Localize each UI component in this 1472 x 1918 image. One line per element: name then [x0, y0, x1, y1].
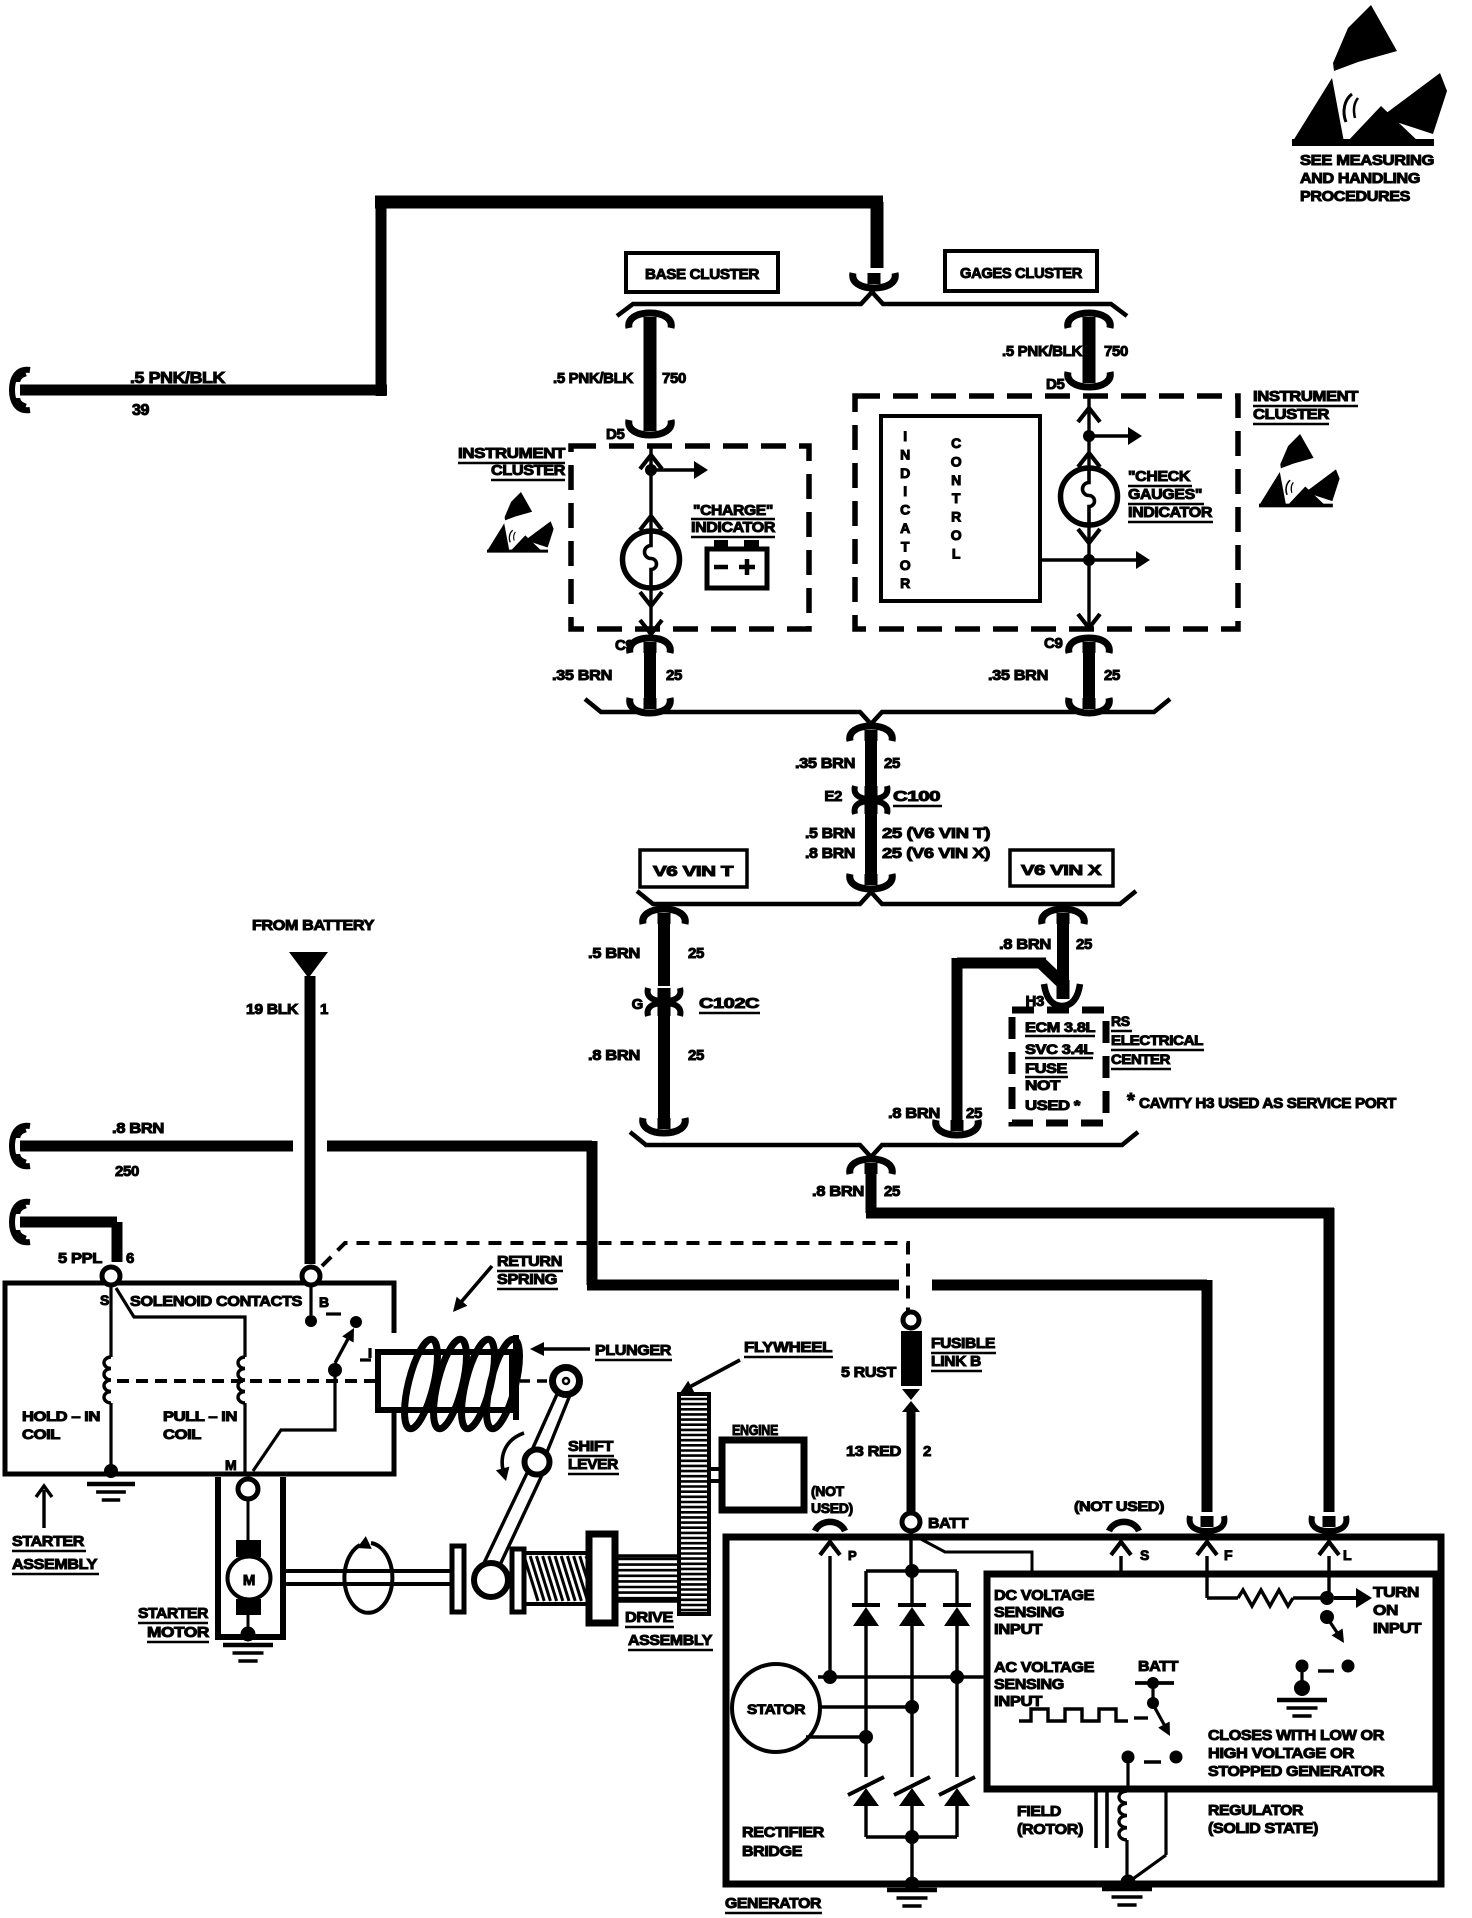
- connector D5 left bottom: [644, 420, 657, 431]
- svg-text:CAVITY H3 USED AS SERVICE PORT: CAVITY H3 USED AS SERVICE PORT: [1139, 1095, 1396, 1112]
- helix section: [524, 1553, 590, 1604]
- turn on arrow: [1334, 1596, 1356, 1600]
- ESD symbol small left: [487, 492, 554, 553]
- battery voltage switch: [1135, 1681, 1174, 1685]
- svg-text:NOT: NOT: [1025, 1077, 1061, 1093]
- svg-text:SEE MEASURING: SEE MEASURING: [1300, 152, 1434, 169]
- label STARTER ASSEMBLY: [42, 1490, 45, 1528]
- svg-text:ELECTRICAL: ELECTRICAL: [1111, 1032, 1204, 1048]
- svg-text:P: P: [848, 1548, 857, 1563]
- charge indicator lamp: [623, 531, 680, 588]
- svg-text:25: 25: [688, 945, 704, 962]
- connector at L: [1323, 1516, 1336, 1527]
- svg-text:FIELD: FIELD: [1017, 1803, 1062, 1820]
- engine box: [722, 1440, 804, 1510]
- svg-text:(SOLID STATE): (SOLID STATE): [1208, 1820, 1318, 1837]
- connector below: [865, 1163, 878, 1174]
- connector to cluster: [868, 273, 881, 284]
- svg-text:*: *: [1127, 1090, 1135, 1112]
- P sense wire: [828, 1556, 831, 1677]
- plunger: [378, 1352, 512, 1410]
- svg-text:ASSEMBLY: ASSEMBLY: [12, 1556, 97, 1573]
- svg-text:RECTIFIER: RECTIFIER: [742, 1824, 825, 1841]
- rectifier bridge top bus: [866, 1569, 957, 1573]
- square wave symbol: [1019, 1709, 1128, 1721]
- svg-text:(NOT USED): (NOT USED): [1074, 1498, 1164, 1514]
- svg-text:I: I: [903, 483, 907, 499]
- rectifier bottom bus: [866, 1835, 957, 1839]
- svg-text:GAUGES": GAUGES": [1128, 486, 1202, 503]
- svg-text:250: 250: [115, 1163, 139, 1180]
- battery feed triangle: [289, 952, 328, 978]
- motor leads: [247, 1499, 250, 1546]
- connector D5 right bottom: [1083, 372, 1096, 383]
- svg-text:CLUSTER: CLUSTER: [1253, 406, 1330, 423]
- svg-text:T: T: [901, 538, 910, 554]
- dashed box instrument cluster left: [571, 446, 809, 629]
- connector C100: [865, 786, 878, 814]
- svg-text:C: C: [951, 435, 961, 451]
- elbow wire to service port: [1040, 962, 1063, 984]
- wire .5 PNK/BLK 750 left: [644, 326, 657, 420]
- svg-text:B: B: [319, 1294, 329, 1310]
- svg-text:RETURN: RETURN: [497, 1253, 562, 1270]
- connector D5 left top: [644, 317, 657, 328]
- switch to M link: [253, 1373, 335, 1471]
- svg-text:CENTER: CENTER: [1111, 1051, 1170, 1067]
- svg-text:25: 25: [666, 667, 682, 684]
- svg-text:.8 BRN: .8 BRN: [888, 1105, 940, 1122]
- svg-text:SHIFT: SHIFT: [568, 1438, 613, 1455]
- svg-text:(NOT: (NOT: [811, 1483, 845, 1499]
- engine mount tab: [709, 1469, 722, 1481]
- tap arrow: [1089, 434, 1128, 437]
- svg-text:S: S: [1140, 1547, 1149, 1563]
- svg-text:D: D: [900, 465, 910, 481]
- wire inside cluster right: [1087, 396, 1090, 468]
- svg-text:O: O: [900, 557, 911, 573]
- svg-text:HIGH VOLTAGE OR: HIGH VOLTAGE OR: [1208, 1745, 1355, 1762]
- dashed centerline: [117, 1379, 377, 1383]
- svg-text:USED *: USED *: [1025, 1097, 1081, 1113]
- svg-text:INSTRUMENT: INSTRUMENT: [1253, 388, 1358, 405]
- svg-text:AC VOLTAGE: AC VOLTAGE: [994, 1659, 1094, 1676]
- dashed box ECM fuse RS electrical center: [1012, 1010, 1106, 1123]
- svg-text:DRIVE: DRIVE: [625, 1609, 673, 1626]
- ESD symbol small right: [1259, 434, 1340, 507]
- svg-text:V6 VIN X: V6 VIN X: [1021, 862, 1101, 879]
- ground switch: [1277, 1698, 1327, 1703]
- fusible link B: [903, 1312, 919, 1328]
- svg-text:INPUT: INPUT: [1373, 1620, 1421, 1637]
- svg-text:FROM BATTERY: FROM BATTERY: [252, 917, 374, 934]
- svg-text:FLYWHEEL: FLYWHEEL: [744, 1339, 832, 1356]
- wire .8 BRN 250: [12, 1126, 30, 1166]
- wire .8 BRN 25 to generator L: [866, 1172, 877, 1213]
- svg-text:N: N: [951, 472, 961, 488]
- svg-text:G: G: [632, 996, 643, 1013]
- diode column 1: [864, 1571, 867, 1605]
- svg-text:25 (V6 VIN X): 25 (V6 VIN X): [882, 845, 990, 862]
- regulator box: [987, 1574, 1436, 1789]
- diode column 3: [955, 1571, 958, 1605]
- stator phase wires: [818, 1675, 984, 1678]
- pull-in coil: [116, 1288, 245, 1357]
- svg-text:39: 39: [132, 402, 150, 419]
- svg-text:SENSING: SENSING: [994, 1676, 1064, 1693]
- brace merge VIN branches: [630, 1132, 1138, 1157]
- svg-text:R: R: [900, 575, 910, 591]
- shift lever: [553, 1368, 580, 1395]
- wire .5 BRN 25: [658, 922, 670, 986]
- terminal chevrons P S F L: [820, 1542, 840, 1555]
- svg-text:INSTRUMENT: INSTRUMENT: [458, 445, 565, 462]
- pinion gear: [615, 1556, 679, 1601]
- svg-text:ECM 3.8L: ECM 3.8L: [1025, 1019, 1096, 1035]
- dashes to lever: [520, 1379, 554, 1383]
- svg-text:SVC 3.4L: SVC 3.4L: [1025, 1041, 1094, 1057]
- svg-text:"CHECK: "CHECK: [1128, 468, 1191, 485]
- starter solenoid box: [5, 1283, 394, 1474]
- svg-text:M: M: [225, 1457, 236, 1473]
- svg-text:.8 BRN: .8 BRN: [805, 845, 855, 862]
- svg-text:C9: C9: [1044, 635, 1062, 652]
- svg-text:BASE CLUSTER: BASE CLUSTER: [645, 266, 760, 283]
- svg-text:"CHARGE": "CHARGE": [693, 502, 773, 519]
- svg-text:ON: ON: [1373, 1602, 1398, 1619]
- low voltage switch: [1320, 1610, 1334, 1624]
- svg-text:BRIDGE: BRIDGE: [742, 1843, 802, 1860]
- svg-text:5 RUST: 5 RUST: [841, 1364, 896, 1381]
- svg-text:C100: C100: [893, 788, 940, 805]
- svg-text:F: F: [1224, 1547, 1233, 1563]
- solenoid switch: [309, 1285, 312, 1315]
- field ground wires: [1125, 1840, 1128, 1882]
- connector below merge: [865, 730, 878, 741]
- svg-text:25: 25: [1104, 667, 1120, 684]
- generator box: [726, 1537, 1441, 1884]
- svg-text:25: 25: [966, 1105, 982, 1122]
- check gauges lamp: [1061, 468, 1118, 525]
- svg-text:(ROTOR): (ROTOR): [1017, 1821, 1083, 1838]
- box BASE CLUSTER: [626, 253, 778, 292]
- svg-text:750: 750: [662, 370, 686, 387]
- svg-text:CLUSTER: CLUSTER: [491, 462, 566, 479]
- return spring: [398, 1336, 445, 1431]
- connector D5 right top: [1083, 317, 1096, 328]
- svg-text:V6 VIN T: V6 VIN T: [653, 863, 733, 880]
- svg-text:25: 25: [688, 1047, 704, 1064]
- svg-text:O: O: [951, 527, 962, 543]
- svg-text:FUSIBLE: FUSIBLE: [931, 1335, 995, 1352]
- motor M circle: [228, 1557, 271, 1600]
- wire .5 PNK/BLK circuit 39: [12, 370, 30, 410]
- svg-text:D5: D5: [606, 426, 624, 443]
- node: [645, 464, 657, 476]
- svg-text:.5 PNK/BLK: .5 PNK/BLK: [1002, 343, 1083, 360]
- connector at F: [1201, 1516, 1214, 1527]
- svg-text:BATT: BATT: [1138, 1658, 1178, 1675]
- svg-text:.5 BRN: .5 BRN: [588, 945, 640, 962]
- box V6 VIN T: [640, 850, 747, 887]
- armature shaft: [286, 1569, 452, 1573]
- svg-text:25: 25: [884, 1183, 900, 1200]
- wire 5 PPL 6: [12, 1202, 30, 1242]
- L wire: [1327, 1556, 1330, 1598]
- brace split base/gages cluster: [617, 292, 1127, 316]
- wire inside cluster left: [649, 446, 652, 531]
- wire 19 BLK 1: [305, 976, 316, 1264]
- svg-text:PULL – IN: PULL – IN: [163, 1408, 237, 1424]
- connector top VIN X: [1057, 913, 1070, 924]
- svg-text:LEVER: LEVER: [568, 1456, 619, 1473]
- svg-text:5 PPL: 5 PPL: [58, 1250, 102, 1267]
- svg-text:1: 1: [320, 1001, 328, 1018]
- svg-text:GENERATOR: GENERATOR: [725, 1895, 822, 1912]
- hold-in coil: [109, 1285, 112, 1357]
- ground starter motor: [223, 1643, 273, 1648]
- svg-text:L: L: [952, 545, 961, 561]
- brace merge clusters: [585, 699, 1170, 724]
- terminal S: [102, 1267, 120, 1285]
- svg-text:C: C: [900, 502, 910, 518]
- svg-text:STARTER: STARTER: [12, 1533, 85, 1550]
- stator circle: [732, 1664, 820, 1752]
- svg-text:.8 BRN: .8 BRN: [588, 1047, 640, 1064]
- wire .5 PNK/BLK 750 right: [1083, 326, 1096, 372]
- svg-text:E2: E2: [824, 788, 842, 805]
- svg-text:.35 BRN: .35 BRN: [552, 667, 612, 684]
- svg-text:.5 BRN: .5 BRN: [805, 825, 855, 842]
- flywheel gear: [679, 1394, 709, 1614]
- svg-text:750: 750: [1104, 343, 1128, 360]
- tap arrow: [1089, 558, 1136, 561]
- svg-text:19 BLK: 19 BLK: [246, 1001, 299, 1018]
- pinion stop collar: [589, 1534, 615, 1623]
- svg-text:ASSEMBLY: ASSEMBLY: [628, 1632, 712, 1649]
- svg-text:COIL: COIL: [163, 1426, 202, 1442]
- rotation arrow: [344, 1543, 392, 1613]
- wire to C9 left: [649, 588, 652, 634]
- connector H3: [1057, 980, 1070, 999]
- svg-text:S: S: [100, 1292, 109, 1308]
- ground field: [1102, 1887, 1152, 1892]
- svg-text:STARTER: STARTER: [138, 1605, 209, 1622]
- connector top VIN T: [658, 913, 671, 924]
- svg-text:.35 BRN: .35 BRN: [795, 755, 855, 772]
- svg-text:A: A: [900, 520, 910, 536]
- svg-text:FUSE: FUSE: [1025, 1060, 1067, 1076]
- svg-text:STOPPED GENERATOR: STOPPED GENERATOR: [1208, 1763, 1385, 1780]
- battery icon: [707, 549, 767, 588]
- svg-text:SENSING: SENSING: [994, 1604, 1064, 1621]
- svg-text:BATT: BATT: [928, 1515, 968, 1532]
- shaft collar 2: [512, 1549, 524, 1612]
- svg-text:COIL: COIL: [22, 1426, 61, 1442]
- svg-text:INDICATOR: INDICATOR: [1128, 504, 1213, 521]
- svg-text:LINK B: LINK B: [931, 1353, 982, 1370]
- dashed battery cable: [322, 1243, 908, 1312]
- svg-text:13 RED: 13 RED: [846, 1443, 902, 1460]
- svg-text:PLUNGER: PLUNGER: [595, 1342, 672, 1359]
- lever motion arrow: [502, 1433, 524, 1477]
- svg-text:.8 BRN: .8 BRN: [112, 1120, 164, 1137]
- svg-text:INDICATOR: INDICATOR: [691, 519, 776, 536]
- svg-text:25 (V6 VIN T): 25 (V6 VIN T): [882, 825, 990, 842]
- svg-text:.35 BRN: .35 BRN: [988, 667, 1048, 684]
- svg-text:R: R: [951, 509, 961, 525]
- BATT to DC sense line: [917, 1537, 1032, 1571]
- tap arrow: [651, 468, 694, 471]
- svg-text:L: L: [1343, 1547, 1352, 1563]
- shaft collar 1: [452, 1546, 464, 1612]
- svg-text:GAGES CLUSTER: GAGES CLUSTER: [960, 265, 1082, 282]
- wire 13 RED 2: [907, 1410, 916, 1512]
- svg-text:MOTOR: MOTOR: [147, 1624, 210, 1641]
- dashed box instrument cluster right: [855, 396, 1238, 629]
- svg-text:PROCEDURES: PROCEDURES: [1300, 188, 1410, 205]
- svg-text:USED): USED): [811, 1500, 853, 1516]
- svg-text:.5 PNK/BLK: .5 PNK/BLK: [130, 370, 226, 387]
- S sense wire: [1119, 1556, 1122, 1574]
- svg-text:I: I: [903, 428, 907, 444]
- wire lamp to C9 right: [1087, 525, 1090, 628]
- svg-text:M: M: [243, 1572, 255, 1589]
- node: [1083, 430, 1095, 442]
- svg-text:ENGINE: ENGINE: [732, 1422, 778, 1439]
- svg-text:D5: D5: [1046, 376, 1064, 393]
- svg-text:.8 BRN: .8 BRN: [999, 936, 1051, 953]
- svg-text:INPUT: INPUT: [994, 1621, 1042, 1638]
- svg-text:N: N: [900, 446, 910, 462]
- svg-text:C102C: C102C: [699, 995, 760, 1012]
- ground rectifier: [887, 1888, 937, 1893]
- ESD static-sensitive symbol: [1292, 5, 1447, 146]
- svg-text:TURN: TURN: [1373, 1584, 1419, 1601]
- wire .35 BRN 25: [865, 739, 877, 786]
- terminal B: [302, 1267, 320, 1285]
- svg-text:AND HANDLING: AND HANDLING: [1300, 170, 1420, 187]
- svg-text:25: 25: [884, 755, 900, 772]
- svg-text:.8 BRN: .8 BRN: [812, 1183, 864, 1200]
- F wire + resistor: [1205, 1556, 1208, 1598]
- ground starter solenoid: [87, 1482, 135, 1487]
- field rotor coil: [1094, 1788, 1098, 1848]
- svg-text:SOLENOID CONTACTS: SOLENOID CONTACTS: [130, 1293, 302, 1310]
- connector C102C: [658, 988, 671, 1016]
- svg-text:DC VOLTAGE: DC VOLTAGE: [994, 1587, 1094, 1604]
- svg-text:SPRING: SPRING: [497, 1271, 557, 1288]
- wire .5/.8 BRN to VIN braces: [865, 814, 877, 874]
- svg-text:.5 PNK/BLK: .5 PNK/BLK: [553, 370, 634, 387]
- BATT lead into bridge: [909, 1531, 912, 1571]
- svg-text:STATOR: STATOR: [747, 1701, 805, 1717]
- svg-text:25: 25: [1076, 936, 1092, 953]
- brace split VIN T / VIN X: [637, 891, 1136, 904]
- svg-text:O: O: [951, 453, 962, 469]
- wire .8 BRN 25: [658, 1016, 670, 1118]
- svg-text:RS: RS: [1111, 1013, 1130, 1029]
- terminal BATT: [902, 1513, 920, 1531]
- svg-text:REGULATOR: REGULATOR: [1208, 1802, 1304, 1819]
- wire .8 BRN 25 vinx: [1057, 922, 1069, 988]
- starter motor housing: [218, 1477, 283, 1637]
- box GAGES CLUSTER: [945, 251, 1097, 291]
- link from control box: [1040, 558, 1089, 561]
- node: [1083, 554, 1095, 566]
- svg-text:CLOSES WITH LOW OR: CLOSES WITH LOW OR: [1208, 1727, 1385, 1744]
- box indicator control: [881, 416, 1040, 601]
- svg-text:T: T: [952, 490, 961, 506]
- diode column 2: [910, 1571, 913, 1605]
- box V6 VIN X: [1010, 850, 1113, 886]
- svg-text:HOLD – IN: HOLD – IN: [22, 1408, 100, 1424]
- field feed wire: [1126, 1757, 1129, 1791]
- svg-text:6: 6: [126, 1250, 134, 1267]
- svg-text:2: 2: [923, 1443, 931, 1460]
